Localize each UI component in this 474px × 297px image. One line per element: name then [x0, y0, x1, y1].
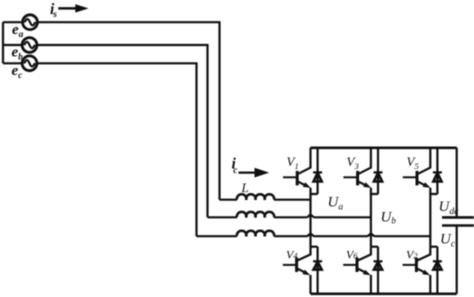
svg-text:Uc: Uc: [440, 232, 456, 250]
svg-text:V3: V3: [347, 154, 359, 171]
svg-text:V1: V1: [287, 154, 299, 171]
svg-text:Ua: Ua: [328, 195, 344, 213]
svg-text:V2: V2: [406, 248, 418, 262]
svg-text:is: is: [50, 1, 57, 20]
svg-text:ic: ic: [232, 156, 239, 177]
svg-text:V6: V6: [346, 248, 358, 262]
svg-text:L: L: [241, 180, 249, 195]
svg-text:V5: V5: [407, 154, 419, 171]
svg-text:V4: V4: [286, 248, 298, 262]
svg-text:Ub: Ub: [381, 210, 397, 226]
